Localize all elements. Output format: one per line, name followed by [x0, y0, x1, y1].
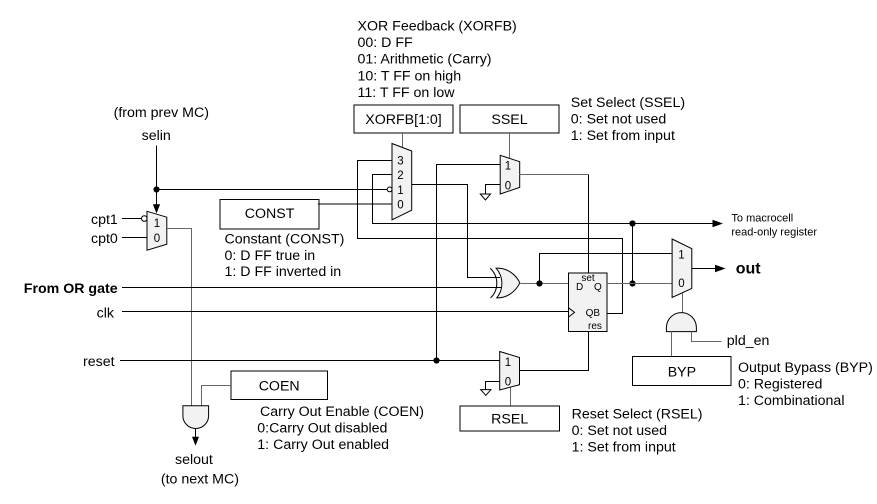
wire SSEL mux ground stub	[486, 185, 501, 195]
label Carry Out Enable legend	[257, 404, 424, 453]
wire QB feedback to XORFB input 3	[358, 161, 623, 314]
wire out arrow	[692, 268, 716, 270]
wire output mux select from AND gate	[682, 293, 684, 313]
box COEN	[231, 371, 328, 400]
box BYP	[633, 356, 731, 385]
label Set Select legend	[571, 95, 685, 144]
D flip-flop U4	[569, 273, 607, 332]
svg-text:0: 0	[397, 200, 403, 212]
node Q feedback junction lower	[629, 280, 635, 286]
label Output Bypass legend	[738, 360, 873, 409]
arrowhead selout	[192, 437, 199, 446]
box SSEL	[460, 105, 559, 133]
XOR gate rear arc	[490, 268, 497, 298]
arrowhead selin into mux	[153, 204, 160, 213]
mux U6 output select	[672, 239, 692, 298]
wire pld_en to AND gate	[692, 332, 722, 342]
box XORFB[1:0]	[354, 105, 453, 133]
wire cpt1 stub	[122, 218, 142, 220]
svg-text:Carry Out Enable (COEN): Carry Out Enable (COEN)	[260, 404, 424, 420]
wire cpt0 stub	[122, 237, 147, 239]
label XOR Feedback legend	[358, 19, 517, 102]
svg-text:1: 1	[678, 250, 684, 262]
bubble XORFB mux input 1	[387, 187, 392, 192]
wire selin vertical	[156, 146, 158, 205]
svg-text:0: 0	[154, 233, 160, 245]
label To macrocell read-only register	[731, 213, 817, 239]
node Q feedback junction upper	[629, 220, 635, 226]
wire set vertical into FF	[588, 175, 590, 273]
svg-text:1: 1	[154, 218, 160, 230]
svg-text:XOR Feedback (XORFB): XOR Feedback (XORFB)	[358, 19, 517, 35]
svg-text:Output Bypass (BYP): Output Bypass (BYP)	[738, 360, 873, 376]
svg-text:2: 2	[397, 170, 403, 182]
svg-text:0: D FF true in: 0: D FF true in	[225, 248, 316, 264]
svg-text:Reset Select (RSEL): Reset Select (RSEL)	[572, 407, 703, 423]
svg-text:11: T FF on low: 11: T FF on low	[358, 85, 456, 101]
svg-text:COEN: COEN	[259, 379, 300, 395]
svg-text:cpt0: cpt0	[91, 231, 118, 247]
wire BYP to AND gate	[671, 332, 673, 357]
svg-text:From OR gate: From OR gate	[24, 281, 118, 297]
wire clk to FF clock	[122, 311, 569, 313]
wire From OR gate to XOR input	[122, 287, 501, 289]
wire FF Q to output mux input 0	[607, 283, 672, 285]
svg-text:XORFB[1:0]: XORFB[1:0]	[365, 112, 441, 128]
svg-text:1: 1	[397, 185, 403, 197]
arrowhead out	[715, 265, 726, 273]
svg-text:To macrocell: To macrocell	[731, 213, 793, 225]
svg-text:SSEL: SSEL	[491, 112, 527, 128]
clock triangle (FF U4)	[569, 308, 575, 317]
wire Q feedback to XORFB input 2 and macrocell register	[373, 175, 633, 284]
svg-text:10: T FF on high: 10: T FF on high	[358, 69, 462, 85]
node selin junction	[153, 186, 159, 192]
svg-text:read-only register: read-only register	[731, 227, 817, 239]
AND gate G3 output bypass (pointing up)	[666, 313, 696, 332]
node D branch junction	[536, 280, 542, 286]
bubble cpt1 inverter	[142, 216, 148, 222]
AND gate G2 selout (pointing down)	[183, 406, 209, 429]
svg-text:D: D	[576, 282, 583, 293]
svg-text:1: Carry Out enabled: 1: Carry Out enabled	[257, 437, 389, 453]
svg-text:0: Registered: 0: Registered	[738, 377, 822, 393]
wire XORFB select stub	[402, 133, 404, 148]
svg-text:cpt1: cpt1	[91, 212, 118, 228]
svg-text:0: Set not used: 0: Set not used	[571, 112, 666, 128]
mux U1 carry select (selin)	[147, 211, 167, 250]
ground symbol (RSEL 0 input)	[481, 390, 491, 396]
svg-text:reset: reset	[83, 354, 115, 370]
svg-text:QB: QB	[586, 308, 601, 319]
svg-text:1: Combinational: 1: Combinational	[738, 393, 844, 409]
arrowhead to macrocell register	[713, 220, 724, 228]
wire FF res from RSEL mux	[520, 331, 589, 370]
wire XOR output to FF D	[521, 283, 569, 285]
wire RSEL select stub	[510, 388, 512, 407]
wire SSEL select stub	[509, 133, 511, 158]
svg-text:1: Set from input: 1: Set from input	[571, 128, 675, 144]
svg-text:01: Arithmetic (Carry): 01: Arithmetic (Carry)	[358, 52, 492, 68]
svg-text:Constant (CONST): Constant (CONST)	[225, 232, 345, 248]
svg-text:set: set	[581, 273, 595, 284]
mux U5 RSEL	[500, 352, 520, 391]
wire mux U1 output to selout gate	[167, 229, 192, 406]
mux U2 XORFB	[392, 144, 412, 220]
svg-text:0: Set not used: 0: Set not used	[572, 423, 667, 439]
svg-text:1: D FF inverted in: 1: D FF inverted in	[225, 264, 342, 280]
svg-text:pld_en: pld_en	[727, 333, 770, 349]
svg-text:1: 1	[505, 357, 511, 369]
svg-text:(to next MC): (to next MC)	[161, 472, 239, 488]
label Reset Select legend	[572, 407, 703, 456]
svg-text:1: 1	[505, 161, 511, 173]
svg-text:selout: selout	[175, 452, 213, 468]
svg-text:RSEL: RSEL	[491, 412, 528, 428]
wire to macrocell read-only register	[633, 223, 714, 225]
node reset junction	[433, 357, 439, 363]
wire SSEL mux output to FF set	[520, 174, 589, 176]
svg-text:res: res	[588, 321, 602, 332]
ground symbol (SSEL 0 input)	[480, 194, 490, 200]
wire selout arrow	[195, 429, 197, 437]
svg-text:selin: selin	[142, 128, 171, 144]
XOR gate G1	[496, 268, 520, 298]
svg-text:1: Set from input: 1: Set from input	[572, 440, 676, 456]
wire COEN to selout gate	[202, 386, 231, 406]
wire XORFB mux output to XOR gate	[412, 185, 500, 278]
svg-text:3: 3	[397, 156, 403, 168]
svg-text:00: D FF: 00: D FF	[358, 35, 414, 51]
svg-text:0: 0	[505, 377, 511, 389]
label Constant legend	[225, 232, 345, 281]
wire CONST to XORFB mux input 0	[318, 203, 392, 205]
svg-text:(from prev MC): (from prev MC)	[114, 105, 209, 121]
box RSEL	[460, 406, 559, 431]
wire selin to XORFB mux input 1	[157, 189, 388, 191]
wire RSEL mux ground stub	[486, 382, 500, 390]
box CONST	[220, 199, 319, 229]
svg-text:out: out	[736, 261, 762, 278]
svg-text:0: 0	[678, 278, 684, 290]
wire reset to RSEL mux input 1	[120, 360, 500, 362]
svg-text:0: 0	[505, 181, 511, 193]
svg-text:BYP: BYP	[668, 365, 696, 381]
svg-text:Q: Q	[594, 282, 602, 293]
svg-text:Set Select (SSEL): Set Select (SSEL)	[571, 95, 685, 111]
wire D branch to output mux input 1	[540, 254, 673, 284]
mux U3 SSEL	[500, 155, 520, 194]
svg-text:0:Carry Out disabled: 0:Carry Out disabled	[257, 420, 387, 436]
svg-text:CONST: CONST	[245, 206, 295, 222]
wire reset feedback to SSEL mux input 1	[437, 165, 501, 361]
svg-text:clk: clk	[97, 306, 115, 322]
